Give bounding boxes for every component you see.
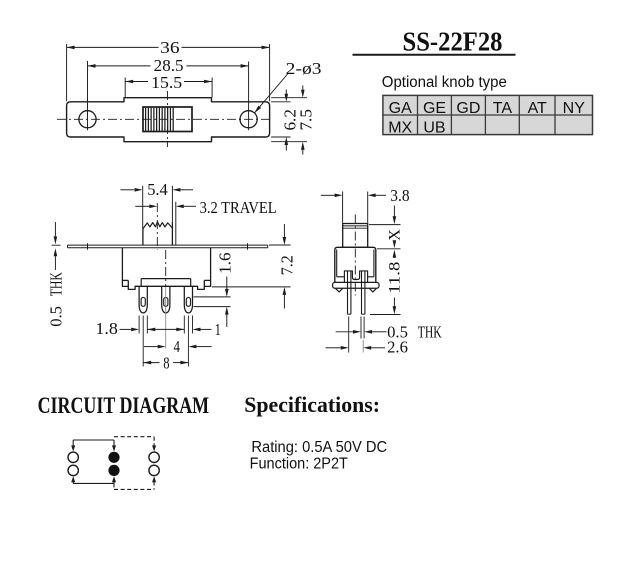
svg-text:2.6: 2.6	[387, 338, 408, 357]
front view body outline	[122, 248, 210, 290]
svg-text:Specifications:: Specifications:	[244, 392, 380, 417]
svg-text:UB: UB	[423, 119, 445, 136]
specifications heading	[244, 392, 380, 417]
front view knob centerline	[156, 203, 158, 250]
svg-text:7.2: 7.2	[277, 255, 296, 275]
dim 5.4	[121, 180, 194, 229]
svg-text:THK: THK	[46, 272, 65, 296]
dim gap arrows	[147, 328, 184, 332]
title underline	[353, 54, 516, 56]
optional knob type label	[382, 74, 507, 91]
svg-text:8: 8	[163, 354, 169, 373]
svg-text:Rating: 0.5A 50V DC: Rating: 0.5A 50V DC	[251, 439, 387, 456]
dim 7.5	[271, 86, 315, 155]
dim 3.2 travel	[135, 198, 276, 245]
svg-text:1.6: 1.6	[215, 252, 234, 273]
knob type table	[383, 95, 593, 136]
svg-text:Optional knob type: Optional knob type	[382, 74, 507, 91]
front terminal extension lines	[139, 316, 192, 367]
dim 2.6	[326, 317, 408, 357]
svg-text:SS-22F28: SS-22F28	[403, 26, 503, 56]
title SS-22F28	[403, 26, 503, 56]
svg-text:1: 1	[215, 320, 221, 339]
front view knob	[143, 222, 173, 245]
svg-text:NY: NY	[563, 100, 586, 117]
dim 28.5	[88, 56, 249, 130]
dim 1	[193, 320, 221, 339]
circuit terminal A2	[68, 465, 78, 475]
side view interior terminal towers	[337, 271, 374, 283]
svg-text:15.5: 15.5	[151, 73, 182, 92]
svg-text:TA: TA	[493, 100, 513, 117]
dim 0.5 thk pin	[336, 317, 443, 342]
spec function line	[250, 456, 349, 473]
svg-text:CIRCUIT DIAGRAM: CIRCUIT DIAGRAM	[38, 393, 210, 419]
front view mounting flange	[68, 243, 268, 249]
circuit solid link top	[71, 440, 116, 452]
svg-text:GA: GA	[389, 100, 412, 117]
svg-text:AT: AT	[528, 100, 547, 117]
svg-text:GE: GE	[423, 100, 446, 117]
svg-text:THK: THK	[418, 322, 442, 341]
front view terminal middle	[162, 286, 170, 313]
svg-text:5.4: 5.4	[147, 180, 168, 199]
circuit dashed link top	[114, 437, 156, 452]
circuit common B1	[108, 452, 119, 463]
front view body centerline	[165, 250, 167, 349]
top view vertical centerline	[167, 91, 169, 147]
circuit terminal C1	[149, 452, 159, 462]
front view terminal left	[139, 286, 147, 313]
dim 4	[144, 337, 212, 356]
circuit terminal C2	[149, 465, 159, 475]
side view centerline	[354, 215, 356, 296]
dim 1.6	[194, 252, 235, 327]
side view mounting band	[333, 282, 379, 288]
front view base plate	[141, 279, 191, 287]
dim 8	[143, 354, 188, 373]
dim 1.8	[95, 319, 139, 338]
svg-text:36: 36	[160, 38, 179, 57]
spec rating line	[251, 439, 387, 456]
label 2-dia3 with leader	[255, 59, 322, 113]
circuit solid link bottom	[71, 476, 116, 483]
top view horizontal centerline	[57, 118, 273, 120]
side view pins	[348, 272, 365, 315]
svg-text:Function: 2P2T: Function: 2P2T	[250, 456, 349, 473]
dim 36	[67, 38, 270, 101]
dim 15.5	[125, 73, 212, 97]
dim 6.2	[271, 90, 299, 151]
svg-text:4: 4	[174, 337, 181, 356]
svg-text:7.5: 7.5	[296, 109, 315, 131]
svg-text:2-ø3: 2-ø3	[286, 59, 322, 78]
top view mounting hole left	[79, 111, 96, 128]
svg-text:MX: MX	[388, 119, 412, 136]
dim 11.8	[370, 249, 403, 315]
svg-text:3.2 TRAVEL: 3.2 TRAVEL	[200, 198, 277, 217]
svg-text:0.5: 0.5	[46, 306, 65, 327]
side view bent feet	[336, 288, 377, 292]
side view body outline	[335, 247, 376, 282]
top view mounting hole right	[240, 111, 257, 128]
top view knob	[143, 107, 192, 132]
dim 0.5 thk flange	[46, 222, 65, 327]
svg-text:X: X	[386, 229, 403, 241]
circuit common B2	[108, 465, 119, 476]
svg-text:3.8: 3.8	[390, 186, 409, 205]
svg-text:GD: GD	[456, 100, 480, 117]
dim 3.8	[321, 186, 410, 223]
front view terminal right	[184, 286, 192, 313]
circuit dashed link bottom	[114, 476, 156, 489]
dim X	[369, 206, 403, 249]
top view plate outline	[67, 98, 270, 142]
dim 7.2	[212, 224, 296, 309]
svg-text:1.8: 1.8	[95, 319, 117, 338]
circuit diagram heading	[38, 393, 210, 419]
side view knob	[343, 224, 368, 248]
svg-text:11.8: 11.8	[386, 262, 403, 294]
circuit terminal A1	[68, 452, 78, 462]
